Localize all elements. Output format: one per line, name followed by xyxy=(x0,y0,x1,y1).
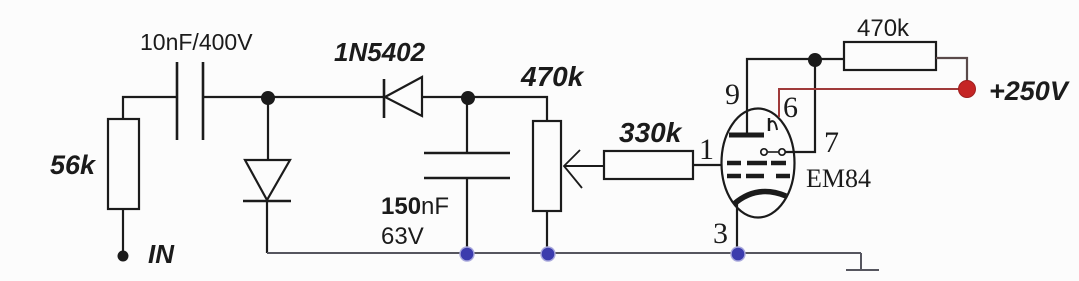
tube U1 EM84 envelope xyxy=(722,109,795,218)
wire pin 9 up to node C xyxy=(747,59,844,135)
ground rail wire xyxy=(267,252,861,254)
grid electrode pin 6 xyxy=(769,118,777,131)
wire R2 to tube pin 1 xyxy=(693,164,722,166)
target anode bar pin 9 electrode xyxy=(729,133,764,138)
node rail junction at P1 xyxy=(541,247,555,261)
wire D1 to pot P1 top xyxy=(422,97,547,121)
svg-text:470k: 470k xyxy=(520,61,585,92)
wire R3 right down to +250V node xyxy=(936,58,967,89)
potentiometer P1 470k xyxy=(533,121,561,253)
capacitor C2 150nF 63V xyxy=(424,153,510,253)
svg-text:7: 7 xyxy=(824,126,839,159)
ground symbol xyxy=(846,253,879,271)
fluorescent screen arch xyxy=(734,192,786,205)
resistor R3 470k anode load xyxy=(844,42,936,70)
svg-text:470k: 470k xyxy=(857,15,910,42)
svg-text:IN: IN xyxy=(148,239,175,269)
svg-text:1N5402: 1N5402 xyxy=(334,37,426,67)
svg-text:9: 9 xyxy=(725,78,740,111)
svg-text:3: 3 xyxy=(713,217,728,250)
svg-text:6: 6 xyxy=(783,91,798,124)
node A junction xyxy=(261,91,275,105)
svg-text:1: 1 xyxy=(699,133,714,166)
wire wiper arrow xyxy=(564,150,604,188)
node rail junction at pin 3 xyxy=(731,247,745,261)
wire pin 3 down to rail xyxy=(736,202,738,253)
pin 7 contact circles xyxy=(761,149,785,155)
wire node B down to C2 xyxy=(466,97,468,153)
resistor R2 330k xyxy=(604,151,693,179)
diode D2 xyxy=(243,160,291,253)
svg-text:56k: 56k xyxy=(50,150,97,180)
wire C1 to D1 xyxy=(203,96,384,98)
node +250V terminal xyxy=(959,81,976,98)
wire node A down to D2 xyxy=(267,97,269,160)
svg-text:+250V: +250V xyxy=(989,76,1070,106)
wire R1 top to C1 xyxy=(123,97,177,119)
wire R1 bottom lead xyxy=(122,209,124,252)
node C junction xyxy=(808,53,822,67)
wire +250V red feed to grid pin 6 xyxy=(779,89,967,117)
diode D1 1N5402 xyxy=(384,77,422,118)
svg-text:63V: 63V xyxy=(381,223,424,250)
capacitor C1 10nF/400V xyxy=(177,62,203,140)
svg-text:EM84: EM84 xyxy=(806,164,871,193)
svg-text:10nF/400V: 10nF/400V xyxy=(140,29,253,55)
svg-text:150nF: 150nF xyxy=(381,193,449,220)
node rail junction at C2 xyxy=(460,247,474,261)
svg-text:330k: 330k xyxy=(619,117,683,148)
grid dashes row 1 (pin 1 grid) xyxy=(727,161,786,166)
grid dashes row 2 xyxy=(727,174,790,179)
node B junction xyxy=(461,91,475,105)
node IN terminal xyxy=(118,251,129,262)
resistor R1 56k xyxy=(108,119,139,209)
wire node C down to pin 7 xyxy=(785,59,815,152)
